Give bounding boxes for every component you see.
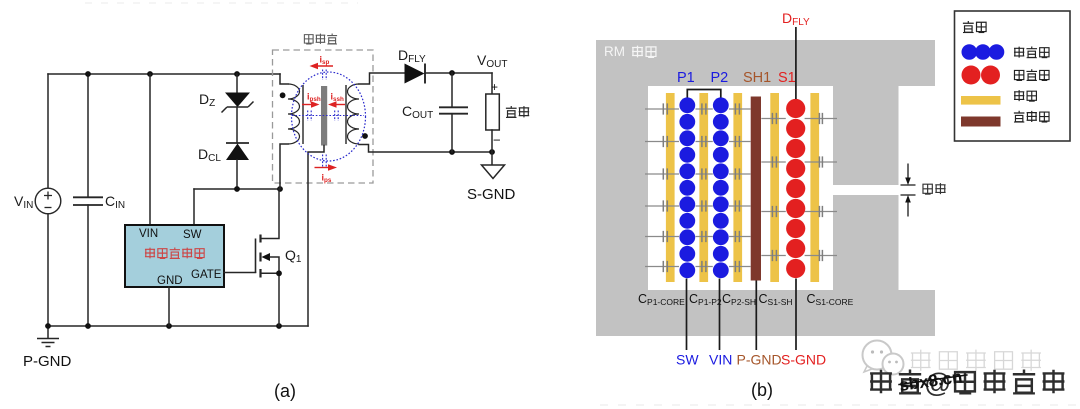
parasitic cap row L2: P1-P2: [696, 136, 713, 147]
ground P-GND symbol: [37, 326, 59, 347]
tape bar 5: [810, 93, 819, 282]
parasitic cap row R3: SH-S1: [761, 206, 786, 217]
transformer core line left: [302, 85, 304, 144]
svg-text:P-GND: P-GND: [737, 352, 782, 368]
watermark text circuit-yidiantong (light): [911, 350, 1041, 371]
parasitic horizontal dashed line: [292, 115, 364, 117]
wire GND pin: [168, 287, 170, 326]
legend tape bar: [961, 96, 1001, 105]
wire DCL bottom: [236, 160, 238, 189]
RM core gray shape: [596, 40, 935, 336]
svg-text:(b): (b): [751, 380, 773, 400]
watermark text toutiao@pengcheng (dark): [870, 368, 1064, 398]
secondary polarity dot: [362, 133, 368, 139]
parasitic cap row L2: P2-SH: [729, 136, 751, 147]
wire VIN from P2: [719, 279, 721, 351]
parasitic cap row R3: S1-core: [805, 206, 837, 217]
watermark sbx8.cn: [897, 366, 969, 395]
legend shield bar: [961, 117, 1001, 127]
winding S1 turns (red): [786, 99, 805, 278]
parasitic cap left: [308, 111, 312, 122]
zener diode DZ: [222, 93, 254, 113]
svg-text:P1: P1: [677, 70, 695, 86]
svg-text:S-GND: S-GND: [781, 352, 826, 368]
legend primary circles: [962, 44, 1005, 60]
parasitic cap right: [335, 111, 339, 122]
primary polarity dot: [280, 92, 286, 98]
svg-text:P-GND: P-GND: [23, 353, 72, 370]
junction dots top rail: [85, 71, 240, 77]
wire SW pin vertical: [193, 189, 195, 224]
transformer dashed boundary box: [273, 50, 374, 183]
svg-text:(a): (a): [274, 381, 296, 401]
capacitor CIN: [73, 74, 103, 326]
P1-P2 connection bracket: [687, 90, 721, 98]
wire VIN source top lead: [47, 74, 49, 188]
ground S-GND symbol: [482, 152, 505, 179]
label load (chinese): [506, 106, 529, 118]
svg-text:GND: GND: [157, 275, 183, 287]
parasitic cap top: [323, 70, 327, 81]
DFLY wire into S1: [795, 27, 797, 99]
svg-text:GATE: GATE: [191, 269, 222, 281]
wire load bottom: [491, 130, 493, 152]
shield ground wire: [308, 146, 324, 327]
transformer primary winding top lead: [280, 74, 288, 84]
parasitic cap row L2: P1-core: [645, 136, 679, 147]
diode DCL: [226, 143, 249, 160]
parasitic cap row L5: P1-core: [645, 231, 679, 242]
junction dots output: [449, 70, 495, 155]
label transformer (chinese): [304, 33, 337, 44]
svg-text:SW: SW: [183, 229, 202, 241]
svg-text:+: +: [491, 80, 498, 94]
legend label tape: [1014, 90, 1036, 101]
diode DFLY: [405, 64, 426, 84]
parasitic cap row L4: P2-SH: [729, 200, 751, 211]
parasitic cap row R4: SH-S1: [761, 250, 786, 261]
legend label primary side: [1014, 46, 1049, 57]
legend label shield layer: [1014, 111, 1049, 122]
resistor load: [486, 94, 500, 130]
parasitic cap row L6: P1-P2: [696, 261, 713, 272]
legend box: [955, 11, 1071, 141]
parasitic cap row L5: P1-P2: [696, 231, 713, 242]
wire GATE pin: [224, 272, 256, 274]
svg-text:SH1: SH1: [743, 70, 771, 86]
parasitic cap row R2: SH-S1: [761, 156, 786, 167]
parasitic cap row L3: P1-P2: [696, 168, 713, 179]
legend label secondary side: [1014, 69, 1049, 80]
secondary bottom lead: [359, 145, 492, 153]
legend title (chinese symbols): [963, 21, 986, 33]
transistor Q1 mosfet: [256, 189, 282, 326]
parasitic cap row R2: S1-core: [805, 156, 837, 167]
transformer primary winding bottom lead: [280, 144, 288, 189]
parasitic cap bottom: [323, 155, 327, 167]
winding P2 turns (blue): [713, 97, 729, 278]
current arrow ips: [315, 164, 338, 184]
transformer core line right: [345, 85, 347, 144]
transformer shield bar: [321, 86, 327, 146]
parasitic cap row L5: P2-SH: [729, 231, 751, 242]
parasitic cap row L1: P2-SH: [729, 103, 751, 114]
svg-text:VIN: VIN: [139, 228, 158, 240]
wire VOUT down to load: [491, 73, 493, 94]
svg-text:S1: S1: [778, 70, 796, 86]
watermark wechat logo: [863, 341, 904, 375]
transformer primary winding T1: [288, 84, 300, 144]
wire zener branch top: [236, 74, 238, 93]
wire VIN source bottom lead: [47, 214, 49, 326]
label air gap (chinese): [923, 183, 946, 194]
tape bar 3: [733, 93, 742, 282]
faint artifact line bottom: [600, 404, 1080, 406]
tape bar 1: [666, 93, 675, 282]
voltage source VIN: [35, 188, 61, 214]
air gap dimension arrows: [901, 164, 916, 217]
label flyback controller (chinese): [145, 247, 204, 258]
parasitic cap row L1: P1-P2: [696, 103, 713, 114]
label RM core: [604, 44, 656, 59]
shield layer SH1 bar: [751, 97, 761, 281]
current arrow issh: [328, 92, 345, 108]
transformer secondary winding T1: [348, 84, 360, 144]
tape bar 2: [699, 93, 708, 282]
parasitic cap row L6: P2-SH: [729, 261, 751, 272]
secondary top lead: [359, 73, 405, 84]
parasitic cap row L3: P2-SH: [729, 168, 751, 179]
wire SW net horizontal: [194, 188, 280, 190]
parasitic cap row L4: P1-core: [645, 200, 679, 211]
wire S-GND from S1: [795, 279, 797, 351]
faint artifact line top: [85, 2, 358, 4]
svg-text:S-GND: S-GND: [467, 186, 516, 203]
flyback controller U1 box: [125, 225, 224, 287]
parasitic cap row L6: P1-core: [645, 261, 679, 272]
current arrow ipsh: [302, 92, 321, 108]
wire P-GND from SH1: [755, 281, 757, 351]
legend secondary circles: [962, 66, 1001, 85]
wire controller VIN pin: [149, 74, 151, 224]
capacitor COUT: [439, 73, 468, 152]
parasitic cap row L4: P1-P2: [696, 200, 713, 211]
wire DZ to DCL: [236, 107, 238, 143]
svg-text:RM: RM: [604, 44, 625, 59]
parasitic cap row L1: P1-core: [645, 103, 679, 114]
wire SW from P1: [686, 279, 688, 351]
current arrow isp: [310, 55, 334, 70]
wire top rail: [48, 73, 280, 75]
parasitic cap row R1: S1-core: [805, 113, 837, 124]
svg-text:−: −: [493, 133, 501, 148]
parasitic cap row R1: SH-S1: [761, 113, 786, 124]
parasitic coupling ellipse (blue dotted): [292, 72, 366, 161]
tape bar 4: [770, 93, 779, 282]
parasitic cap row L3: P1-core: [645, 168, 679, 179]
svg-text:VIN: VIN: [709, 352, 732, 368]
wire DFLY to VOUT: [425, 72, 492, 74]
wire bottom ground rail: [47, 325, 308, 327]
junction dots SW net: [234, 186, 283, 192]
winding P1 turns (blue): [679, 97, 695, 278]
junction dots bottom rail: [45, 323, 282, 329]
svg-text:P2: P2: [711, 70, 729, 86]
parasitic cap row R4: S1-core: [805, 250, 837, 261]
svg-text:SW: SW: [676, 352, 699, 368]
